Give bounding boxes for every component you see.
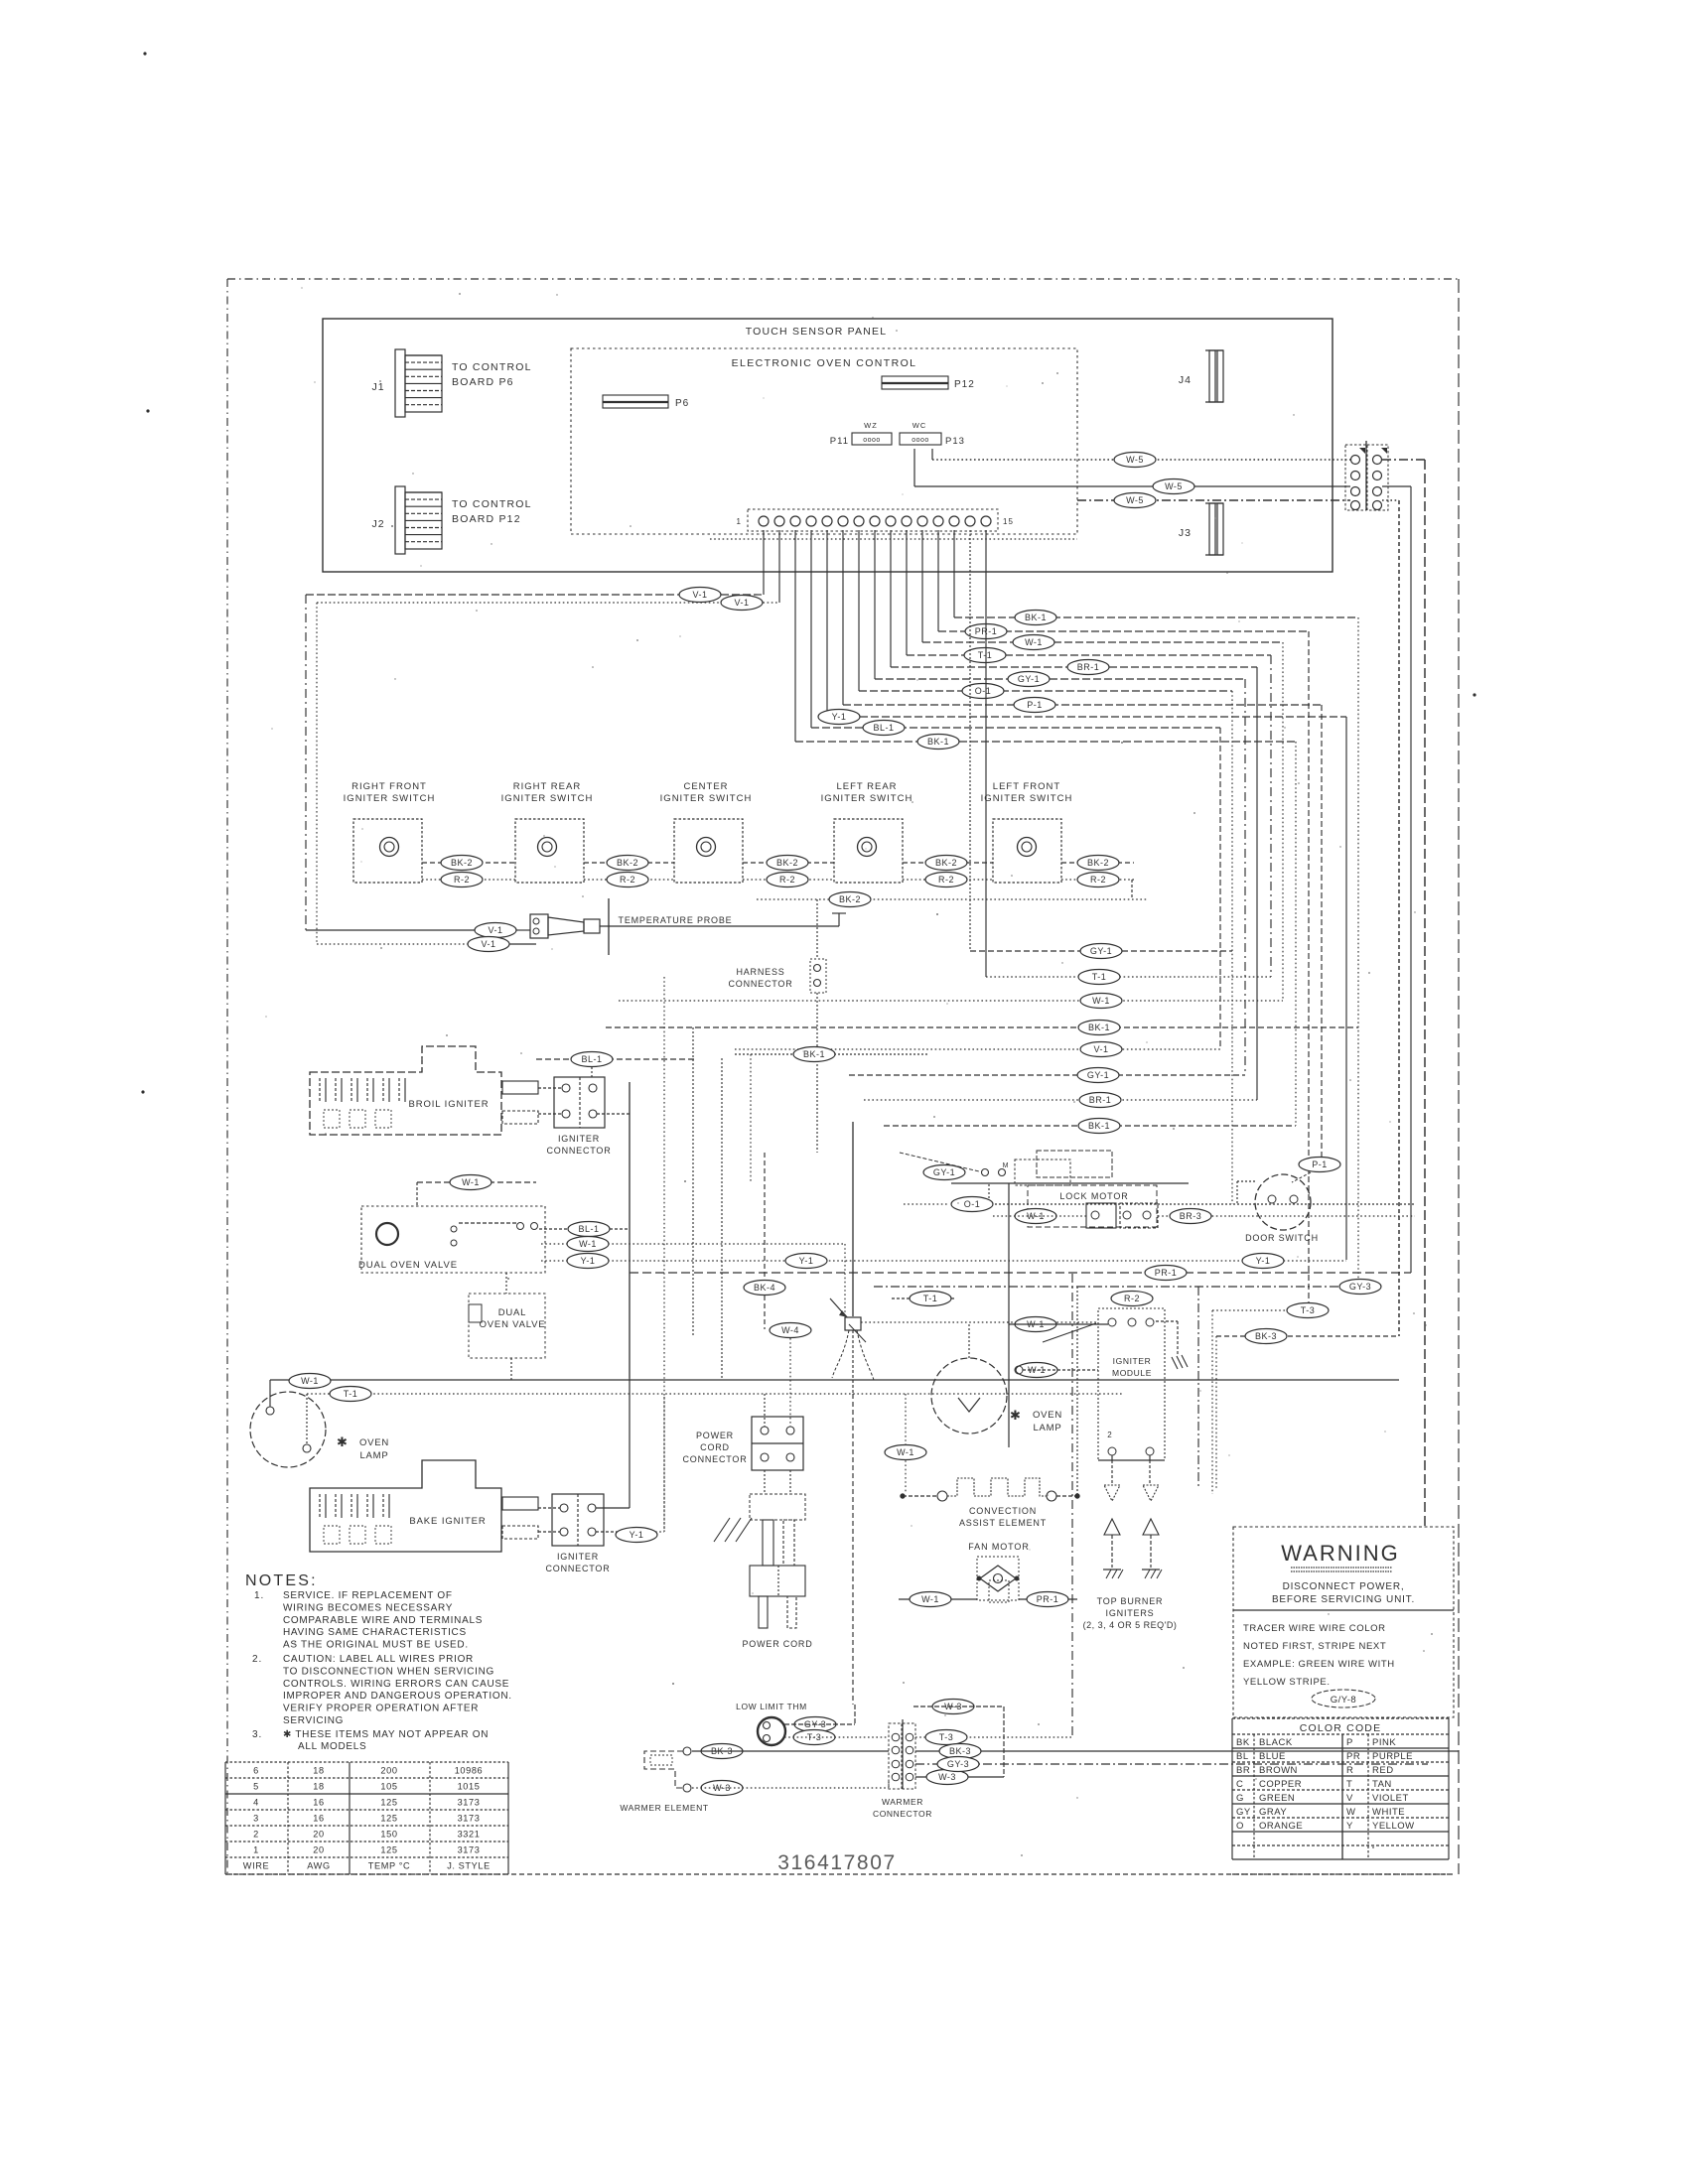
svg-text:2: 2 <box>1107 1431 1112 1439</box>
svg-text:P-1: P-1 <box>1312 1160 1328 1169</box>
svg-text:3173: 3173 <box>458 1798 481 1808</box>
svg-text:15: 15 <box>1003 517 1014 526</box>
svg-text:V-1: V-1 <box>1093 1044 1108 1054</box>
svg-text:BK-3: BK-3 <box>949 1746 971 1756</box>
svg-text:COPPER: COPPER <box>1259 1779 1302 1790</box>
svg-text:BR-3: BR-3 <box>1180 1211 1202 1221</box>
svg-text:125: 125 <box>380 1798 397 1808</box>
svg-text:P: P <box>1346 1737 1353 1748</box>
svg-text:BK: BK <box>1236 1737 1250 1748</box>
svg-text:IGNITERS: IGNITERS <box>1106 1608 1155 1618</box>
svg-text:J2: J2 <box>371 518 384 530</box>
svg-text:TEMPERATURE PROBE: TEMPERATURE PROBE <box>619 915 733 925</box>
svg-text:1: 1 <box>737 517 742 526</box>
svg-text:LAMP: LAMP <box>1033 1423 1061 1433</box>
svg-text:125: 125 <box>380 1814 397 1824</box>
svg-text:COLOR CODE: COLOR CODE <box>1300 1722 1382 1734</box>
svg-text:TO CONTROL: TO CONTROL <box>452 361 532 373</box>
svg-text:W: W <box>1346 1807 1355 1818</box>
svg-text:J1: J1 <box>371 381 384 393</box>
svg-text:T-3: T-3 <box>1301 1305 1316 1315</box>
svg-text:ORANGE: ORANGE <box>1259 1821 1303 1832</box>
svg-text:DUAL: DUAL <box>498 1307 527 1318</box>
svg-text:BK-2: BK-2 <box>617 858 638 868</box>
svg-text:IGNITER SWITCH: IGNITER SWITCH <box>344 793 436 804</box>
svg-text:GY-1: GY-1 <box>1087 1070 1109 1080</box>
svg-text:IGNITER SWITCH: IGNITER SWITCH <box>821 793 913 804</box>
svg-text:BK-2: BK-2 <box>1087 858 1109 868</box>
svg-text:G: G <box>1236 1793 1244 1804</box>
svg-text:YELLOW: YELLOW <box>1372 1821 1415 1832</box>
svg-text:WARMER ELEMENT: WARMER ELEMENT <box>620 1803 708 1813</box>
svg-text:FAN MOTOR: FAN MOTOR <box>968 1542 1029 1552</box>
svg-text:TAN: TAN <box>1372 1779 1392 1790</box>
svg-text:18: 18 <box>313 1782 324 1792</box>
svg-text:O: O <box>1236 1821 1244 1832</box>
svg-text:CONVECTION: CONVECTION <box>969 1506 1037 1516</box>
svg-text:IGNITER: IGNITER <box>1113 1356 1152 1366</box>
svg-text:TOP BURNER: TOP BURNER <box>1097 1596 1164 1606</box>
svg-text:BL-1: BL-1 <box>581 1054 602 1064</box>
svg-text:BAKE IGNITER: BAKE IGNITER <box>409 1516 486 1527</box>
svg-text:3.: 3. <box>252 1729 262 1740</box>
svg-text:W-1: W-1 <box>1092 996 1110 1006</box>
svg-text:V-1: V-1 <box>734 598 749 608</box>
svg-text:PR-1: PR-1 <box>1037 1594 1059 1604</box>
svg-text:BEFORE SERVICING UNIT.: BEFORE SERVICING UNIT. <box>1272 1594 1415 1605</box>
svg-text:CONTROLS. WIRING ERRORS CAN: CONTROLS. WIRING ERRORS CAN CAUSE <box>283 1679 509 1690</box>
svg-text:BK-1: BK-1 <box>1088 1023 1110 1032</box>
svg-text:1.: 1. <box>254 1590 264 1601</box>
svg-text:DISCONNECT POWER,: DISCONNECT POWER, <box>1283 1581 1405 1592</box>
svg-text:WC: WC <box>912 421 927 430</box>
svg-text:O-1: O-1 <box>975 686 992 696</box>
svg-text:W-5: W-5 <box>1126 455 1144 465</box>
svg-text:CAUTION: LABEL ALL WIRES PRI: CAUTION: LABEL ALL WIRES PRIOR <box>283 1654 474 1665</box>
svg-text:P-1: P-1 <box>1027 700 1043 710</box>
svg-text:MODULE: MODULE <box>1112 1368 1152 1378</box>
svg-text:TO DISCONNECTION WHEN SERVICIN: TO DISCONNECTION WHEN SERVICING <box>283 1666 494 1677</box>
svg-text:WARNING: WARNING <box>1281 1541 1400 1566</box>
svg-text:WIRING BECOMES NECESSARY: WIRING BECOMES NECESSARY <box>283 1602 453 1613</box>
svg-text:Y: Y <box>1346 1821 1353 1832</box>
svg-text:IGNITER SWITCH: IGNITER SWITCH <box>981 793 1073 804</box>
svg-text:T-1: T-1 <box>344 1389 358 1399</box>
svg-text:✱: ✱ <box>337 1434 349 1449</box>
svg-text:TOUCH SENSOR PANEL: TOUCH SENSOR PANEL <box>746 326 888 338</box>
svg-text:PR-1: PR-1 <box>1155 1268 1178 1278</box>
svg-text:20: 20 <box>313 1830 324 1840</box>
svg-text:M: M <box>1003 1162 1010 1169</box>
svg-text:BK-2: BK-2 <box>776 858 798 868</box>
svg-text:G/Y-8: G/Y-8 <box>1331 1695 1356 1706</box>
svg-text:IGNITER: IGNITER <box>557 1552 599 1562</box>
svg-text:P12: P12 <box>954 379 975 390</box>
svg-text:R-2: R-2 <box>1090 875 1106 885</box>
svg-text:BOARD P12: BOARD P12 <box>452 513 521 525</box>
svg-text:CORD: CORD <box>700 1442 730 1452</box>
svg-text:NOTES:: NOTES: <box>245 1572 318 1589</box>
svg-text:BK-1: BK-1 <box>927 737 949 747</box>
svg-text:LEFT REAR: LEFT REAR <box>836 781 897 792</box>
svg-text:AS THE ORIGINAL MUST BE USED.: AS THE ORIGINAL MUST BE USED. <box>283 1640 469 1651</box>
svg-text:GY: GY <box>1236 1807 1251 1818</box>
svg-text:3173: 3173 <box>458 1814 481 1824</box>
svg-text:oooo: oooo <box>912 437 929 444</box>
svg-text:OVEN: OVEN <box>1033 1410 1062 1421</box>
svg-text:T: T <box>1346 1779 1352 1790</box>
svg-text:GY-1: GY-1 <box>933 1167 955 1177</box>
svg-text:P11: P11 <box>830 436 849 447</box>
svg-text:W-4: W-4 <box>781 1325 799 1335</box>
svg-text:1: 1 <box>253 1845 259 1855</box>
svg-text:O-1: O-1 <box>964 1199 981 1209</box>
svg-text:PINK: PINK <box>1372 1737 1396 1748</box>
svg-text:4: 4 <box>253 1798 259 1808</box>
svg-text:WARMER: WARMER <box>882 1797 923 1807</box>
svg-text:POWER CORD: POWER CORD <box>743 1639 813 1649</box>
svg-text:BOARD P6: BOARD P6 <box>452 376 514 388</box>
svg-text:CENTER: CENTER <box>683 781 728 792</box>
svg-text:WHITE: WHITE <box>1372 1807 1405 1818</box>
svg-text:BR-1: BR-1 <box>1089 1095 1112 1105</box>
svg-text:OVEN VALVE: OVEN VALVE <box>480 1319 546 1330</box>
svg-text:6: 6 <box>253 1766 259 1776</box>
svg-text:IGNITER SWITCH: IGNITER SWITCH <box>660 793 753 804</box>
svg-text:125: 125 <box>380 1845 397 1855</box>
svg-text:V: V <box>1346 1793 1353 1804</box>
svg-text:BR-1: BR-1 <box>1077 662 1100 672</box>
svg-text:BL-1: BL-1 <box>578 1224 599 1234</box>
svg-text:W-5: W-5 <box>1165 481 1183 491</box>
svg-text:WIRE: WIRE <box>243 1861 269 1871</box>
svg-text:W-3: W-3 <box>938 1772 956 1782</box>
svg-text:GRAY: GRAY <box>1259 1807 1287 1818</box>
svg-text:LOCK MOTOR: LOCK MOTOR <box>1059 1191 1128 1201</box>
svg-text:RED: RED <box>1372 1765 1394 1776</box>
svg-text:✱ THESE ITEMS MAY NOT APPEAR O: ✱ THESE ITEMS MAY NOT APPEAR ON <box>283 1729 489 1740</box>
svg-text:W-5: W-5 <box>1126 495 1144 505</box>
svg-text:W-1: W-1 <box>579 1239 597 1249</box>
svg-text:J3: J3 <box>1179 527 1192 539</box>
svg-text:R-2: R-2 <box>620 875 635 885</box>
svg-text:(2, 3, 4 OR 5 REQ'D): (2, 3, 4 OR 5 REQ'D) <box>1083 1620 1178 1630</box>
svg-text:POWER: POWER <box>696 1431 734 1440</box>
svg-text:20: 20 <box>313 1845 324 1855</box>
svg-text:W-1: W-1 <box>1025 637 1043 647</box>
svg-text:Y-1: Y-1 <box>581 1256 596 1266</box>
svg-text:DUAL OVEN VALVE: DUAL OVEN VALVE <box>358 1260 458 1271</box>
svg-text:PR: PR <box>1346 1751 1360 1762</box>
svg-text:WZ: WZ <box>864 421 878 430</box>
svg-text:HARNESS: HARNESS <box>736 967 784 977</box>
svg-text:CONNECTOR: CONNECTOR <box>728 979 792 989</box>
svg-text:BLACK: BLACK <box>1259 1737 1293 1748</box>
svg-text:W-1: W-1 <box>897 1447 914 1457</box>
svg-text:IMPROPER AND DANGEROUS OPERATI: IMPROPER AND DANGEROUS OPERATION. <box>283 1691 512 1702</box>
svg-text:V-1: V-1 <box>488 925 502 935</box>
svg-text:BL: BL <box>1236 1751 1249 1762</box>
svg-text:SERVICE. IF REPLACEMENT OF: SERVICE. IF REPLACEMENT OF <box>283 1590 453 1601</box>
svg-text:2.: 2. <box>252 1654 262 1665</box>
svg-text:C: C <box>1236 1779 1243 1790</box>
svg-text:W-1: W-1 <box>921 1594 939 1604</box>
svg-text:P13: P13 <box>945 436 965 447</box>
svg-text:VERIFY PROPER OPERATION AFTER: VERIFY PROPER OPERATION AFTER <box>283 1704 479 1714</box>
svg-text:oooo: oooo <box>863 437 881 444</box>
svg-text:Y-1: Y-1 <box>630 1530 644 1540</box>
svg-text:RIGHT REAR: RIGHT REAR <box>513 781 581 792</box>
svg-text:BK-3: BK-3 <box>1255 1331 1277 1341</box>
svg-text:3321: 3321 <box>458 1830 481 1840</box>
svg-text:BK-2: BK-2 <box>839 894 861 904</box>
svg-text:P6: P6 <box>675 398 689 409</box>
svg-text:✱: ✱ <box>1010 1408 1022 1423</box>
svg-text:J4: J4 <box>1179 374 1192 386</box>
svg-text:J. STYLE: J. STYLE <box>447 1861 491 1871</box>
svg-text:BK-2: BK-2 <box>935 858 957 868</box>
svg-text:DOOR SWITCH: DOOR SWITCH <box>1245 1233 1319 1243</box>
svg-text:R: R <box>1346 1765 1353 1776</box>
svg-text:T-3: T-3 <box>939 1732 954 1742</box>
svg-text:VIOLET: VIOLET <box>1372 1793 1409 1804</box>
svg-text:V-1: V-1 <box>692 590 707 600</box>
svg-text:SERVICING: SERVICING <box>283 1715 344 1726</box>
svg-text:R-2: R-2 <box>454 875 470 885</box>
svg-text:NOTED FIRST, STRIPE NEXT: NOTED FIRST, STRIPE NEXT <box>1243 1641 1386 1652</box>
svg-text:TRACER WIRE WIRE COLOR: TRACER WIRE WIRE COLOR <box>1243 1623 1386 1634</box>
svg-text:AWG: AWG <box>307 1861 330 1871</box>
svg-text:2: 2 <box>253 1830 259 1840</box>
svg-text:3: 3 <box>253 1814 259 1824</box>
svg-text:3173: 3173 <box>458 1845 481 1855</box>
svg-text:BK-1: BK-1 <box>1025 613 1047 622</box>
svg-text:TO CONTROL: TO CONTROL <box>452 498 532 510</box>
svg-text:BK-2: BK-2 <box>451 858 473 868</box>
svg-text:Y-1: Y-1 <box>1256 1256 1271 1266</box>
svg-text:105: 105 <box>380 1782 397 1792</box>
svg-text:RIGHT FRONT: RIGHT FRONT <box>351 781 427 792</box>
svg-text:T-1: T-1 <box>978 650 993 660</box>
svg-text:16: 16 <box>313 1798 324 1808</box>
svg-text:ALL MODELS: ALL MODELS <box>298 1741 366 1752</box>
svg-text:CONNECTOR: CONNECTOR <box>682 1454 747 1464</box>
svg-text:BK-4: BK-4 <box>754 1283 775 1293</box>
svg-text:GREEN: GREEN <box>1259 1793 1295 1804</box>
svg-text:T-1: T-1 <box>1092 972 1107 982</box>
svg-text:IGNITER: IGNITER <box>558 1134 600 1144</box>
svg-text:CONNECTOR: CONNECTOR <box>546 1146 611 1156</box>
svg-text:IGNITER SWITCH: IGNITER SWITCH <box>501 793 594 804</box>
svg-text:V-1: V-1 <box>481 939 495 949</box>
svg-text:BROWN: BROWN <box>1259 1765 1298 1776</box>
svg-text:150: 150 <box>380 1830 397 1840</box>
svg-text:R-2: R-2 <box>779 875 795 885</box>
svg-text:COMPARABLE WIRE AND TERMINALS: COMPARABLE WIRE AND TERMINALS <box>283 1615 483 1626</box>
svg-text:5: 5 <box>253 1782 259 1792</box>
svg-text:CONNECTOR: CONNECTOR <box>545 1564 610 1573</box>
svg-text:10986: 10986 <box>455 1766 484 1776</box>
svg-text:GY-1: GY-1 <box>1090 946 1112 956</box>
svg-text:1015: 1015 <box>458 1782 481 1792</box>
svg-text:GY-3: GY-3 <box>947 1759 969 1769</box>
svg-text:GY-3: GY-3 <box>1349 1282 1371 1292</box>
svg-text:BLUE: BLUE <box>1259 1751 1286 1762</box>
svg-text:BL-1: BL-1 <box>873 723 894 733</box>
svg-text:CONNECTOR: CONNECTOR <box>873 1809 932 1819</box>
svg-text:HAVING SAME CHARACTERISTICS: HAVING SAME CHARACTERISTICS <box>283 1627 467 1638</box>
svg-text:ASSIST ELEMENT: ASSIST ELEMENT <box>959 1518 1047 1528</box>
svg-text:R-2: R-2 <box>938 875 954 885</box>
svg-text:316417807: 316417807 <box>777 1851 897 1874</box>
svg-text:W-1: W-1 <box>301 1376 319 1386</box>
svg-text:BK-1: BK-1 <box>1088 1121 1110 1131</box>
svg-text:LAMP: LAMP <box>359 1450 388 1461</box>
svg-text:BK-1: BK-1 <box>803 1049 825 1059</box>
svg-text:ELECTRONIC OVEN CONTROL: ELECTRONIC OVEN CONTROL <box>732 357 917 369</box>
svg-text:W-1: W-1 <box>462 1177 480 1187</box>
svg-text:PURPLE: PURPLE <box>1372 1751 1413 1762</box>
svg-text:EXAMPLE: GREEN WIRE WITH: EXAMPLE: GREEN WIRE WITH <box>1243 1659 1395 1670</box>
svg-text:BROIL IGNITER: BROIL IGNITER <box>408 1099 489 1110</box>
svg-text:YELLOW STRIPE.: YELLOW STRIPE. <box>1243 1677 1331 1688</box>
svg-text:R-2: R-2 <box>1124 1294 1140 1303</box>
svg-text:BR: BR <box>1236 1765 1250 1776</box>
svg-text:GY-1: GY-1 <box>1018 674 1040 684</box>
svg-text:18: 18 <box>313 1766 324 1776</box>
svg-text:TEMP °C: TEMP °C <box>368 1861 410 1871</box>
svg-text:LOW LIMIT THM: LOW LIMIT THM <box>736 1702 807 1711</box>
svg-text:LEFT FRONT: LEFT FRONT <box>993 781 1060 792</box>
svg-text:16: 16 <box>313 1814 324 1824</box>
svg-text:Y-1: Y-1 <box>832 712 847 722</box>
svg-text:T-1: T-1 <box>923 1294 938 1303</box>
svg-text:200: 200 <box>380 1766 397 1776</box>
svg-text:Y-1: Y-1 <box>799 1256 814 1266</box>
svg-text:OVEN: OVEN <box>359 1437 389 1448</box>
